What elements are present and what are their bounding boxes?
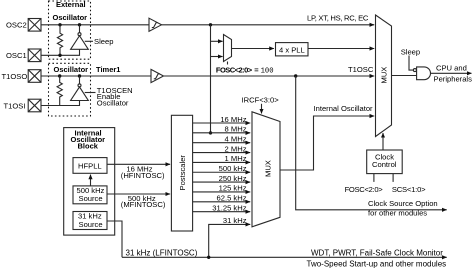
- wire pllmux to 4xPLL: [232, 48, 274, 50]
- svg-text:8 MHz: 8 MHz: [225, 125, 247, 134]
- svg-text:Control: Control: [372, 160, 397, 169]
- wire T1OSO rail left: [41, 75, 151, 77]
- svg-text:SCS<1:0>: SCS<1:0>: [392, 185, 426, 194]
- node 31k junction: [207, 256, 210, 259]
- svg-text:CPU and: CPU and: [436, 64, 467, 73]
- wire 500k to hfpll: [90, 175, 92, 186]
- wire mux to and gate: [392, 75, 417, 77]
- wire ircf stub: [261, 104, 263, 114]
- block 4xPLL: [276, 43, 309, 56]
- dashed box Timer1 Oscillator: [49, 63, 91, 116]
- resistor R2: [57, 76, 62, 106]
- svg-text:(HFINTOSC): (HFINTOSC): [121, 171, 165, 180]
- svg-text:62.5 kHz: 62.5 kHz: [217, 194, 247, 203]
- pin OSC1: [6, 49, 41, 62]
- svg-text:Internal Oscillator: Internal Oscillator: [314, 104, 374, 113]
- pin T1OSO: [2, 70, 42, 83]
- inverter amp timer1 osc: [71, 76, 89, 101]
- wire int osc route: [280, 116, 374, 170]
- node OSC1-R: [58, 54, 61, 57]
- wire T1OSC rail to mux: [164, 75, 375, 77]
- node OSC2-R: [58, 23, 61, 26]
- svg-text:Source: Source: [79, 194, 103, 203]
- wire OSC1 rail: [41, 49, 80, 55]
- svg-text:4 MHz: 4 MHz: [225, 135, 247, 144]
- svg-text:MUX: MUX: [380, 67, 389, 84]
- svg-text:Peripherals: Peripherals: [434, 74, 473, 83]
- svg-text:4 x PLL: 4 x PLL: [279, 45, 305, 54]
- wire cpu out: [431, 72, 472, 74]
- svg-text:FOSC<2:0>: FOSC<2:0>: [216, 65, 253, 74]
- wire fan 2MHz: [193, 152, 251, 154]
- buffer t1 clock: [151, 69, 164, 82]
- svg-text:HFPLL: HFPLL: [78, 162, 102, 171]
- mux IRCF: [252, 112, 280, 227]
- block 500kHz source: [73, 186, 107, 204]
- wire fosc stub: [227, 62, 229, 65]
- svg-text:OSC2: OSC2: [6, 21, 27, 30]
- svg-text:1 MHz: 1 MHz: [225, 154, 247, 163]
- svg-text:T1OSI: T1OSI: [4, 101, 26, 110]
- wire pll mux input 1: [211, 40, 223, 42]
- svg-text:Sleep: Sleep: [94, 37, 113, 46]
- svg-text:31.25 kHz: 31.25 kHz: [212, 203, 246, 212]
- svg-text:WDT, PWRT, Fail-Safe Clock Mon: WDT, PWRT, Fail-Safe Clock Monitor: [311, 248, 443, 257]
- wire fan 125kHz: [193, 191, 251, 193]
- block Postscaler: [171, 115, 192, 231]
- wire fan 4MHz: [193, 142, 251, 144]
- svg-text:LP, XT, HS, RC, EC: LP, XT, HS, RC, EC: [307, 14, 369, 23]
- svg-text:Two-Speed Start-up and other m: Two-Speed Start-up and other modules: [307, 259, 447, 268]
- svg-text:Sleep: Sleep: [401, 48, 420, 57]
- wire 500k out: [107, 193, 170, 195]
- wire 31k out elbow: [107, 221, 122, 257]
- node OSC2-inv: [78, 23, 81, 26]
- wire OSC2 rail left: [41, 24, 149, 26]
- svg-text:Clock Source Option: Clock Source Option: [368, 199, 438, 208]
- wire sleep down: [409, 56, 413, 71]
- svg-text:125 kHz: 125 kHz: [219, 184, 247, 193]
- svg-text:External: External: [56, 0, 86, 9]
- svg-text:for other modules: for other modules: [368, 208, 427, 217]
- resistor R1: [57, 25, 62, 56]
- svg-text:Block: Block: [78, 141, 99, 150]
- block Clock Control: [367, 150, 403, 174]
- block 31kHz source: [73, 212, 107, 230]
- wire pll mux input 2: [211, 56, 223, 58]
- inverter amp external osc: [71, 25, 89, 50]
- svg-text:Oscillator: Oscillator: [97, 98, 129, 107]
- and gate CPU: [413, 67, 430, 80]
- label T1OSCEN Enable Oscillator: [97, 86, 133, 107]
- node 8mhz tap: [209, 131, 212, 134]
- wire fan 31.25kHz: [193, 211, 251, 213]
- svg-text:Oscillator: Oscillator: [53, 13, 88, 22]
- wire sleep tap: [85, 40, 93, 42]
- dashed box External Oscillator: [49, 0, 91, 59]
- svg-text:Postscaler: Postscaler: [178, 155, 187, 191]
- svg-text:Oscillator: Oscillator: [54, 65, 89, 74]
- wire clock source option: [296, 76, 447, 210]
- wire OSC rail to mux: [162, 24, 375, 26]
- wire t1oscen tap: [85, 92, 96, 94]
- svg-text:500 kHz: 500 kHz: [219, 164, 247, 173]
- wire scs stub cc: [392, 174, 394, 182]
- svg-text:250 kHz: 250 kHz: [219, 174, 247, 183]
- wire fosc stub cc: [373, 174, 375, 182]
- pin OSC2: [6, 19, 41, 32]
- wire fan 62.5kHz: [193, 201, 251, 203]
- block Internal Oscillator Block: [64, 128, 115, 236]
- svg-text:31 kHz: 31 kHz: [223, 216, 247, 225]
- svg-text:2 MHz: 2 MHz: [225, 144, 247, 153]
- svg-text:T1OSC: T1OSC: [348, 65, 374, 74]
- wire fan 1MHz: [193, 161, 251, 163]
- wire 4xPLL to mux: [308, 48, 374, 50]
- wire 31k mux input: [209, 224, 251, 257]
- svg-text:100: 100: [261, 67, 274, 75]
- svg-text:T1OSO: T1OSO: [2, 72, 28, 81]
- wire fan 250kHz: [193, 181, 251, 183]
- wire fan 8MHz: [193, 132, 251, 134]
- node t1osc branch: [294, 74, 297, 77]
- wire clock control to mux: [382, 133, 384, 150]
- node osc-pll branch: [209, 23, 212, 26]
- wire fan 16MHz: [193, 122, 251, 124]
- block HFPLL: [73, 158, 107, 174]
- svg-text:MUX: MUX: [264, 160, 273, 177]
- wire hfpll out 16MHz: [107, 163, 170, 165]
- pin T1OSI: [4, 99, 42, 112]
- label 16 MHz HFINTOSC: [121, 165, 165, 180]
- node T1OSO-R: [58, 74, 61, 77]
- svg-text:OSC1: OSC1: [6, 51, 27, 60]
- svg-text:(MFINTOSC): (MFINTOSC): [121, 200, 166, 209]
- svg-text:FOSC<2:0>: FOSC<2:0>: [345, 185, 384, 194]
- mux system clock: [376, 15, 392, 137]
- wire pll-select vertical: [210, 25, 212, 133]
- wire 31k bottom rail: [122, 256, 447, 258]
- wire fan 500kHz: [193, 171, 251, 173]
- label 500 kHz MFINTOSC: [121, 194, 166, 209]
- wire T1OSI rail: [41, 101, 80, 106]
- svg-text:16 MHz: 16 MHz: [220, 115, 246, 124]
- node T1OSO-inv: [78, 74, 81, 77]
- mux pll-select: [224, 35, 232, 62]
- svg-text:=: =: [254, 65, 259, 74]
- buffer ext clock: [149, 18, 162, 31]
- svg-text:Timer1: Timer1: [96, 65, 120, 74]
- svg-text:IRCF<3:0>: IRCF<3:0>: [242, 96, 280, 105]
- svg-text:31 kHz (LFINTOSC): 31 kHz (LFINTOSC): [126, 248, 198, 257]
- svg-text:Source: Source: [79, 220, 103, 229]
